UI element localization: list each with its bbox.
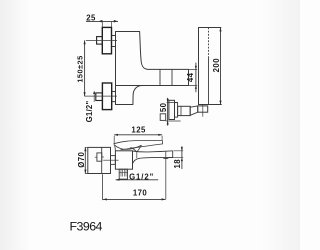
svg-text:G1/2": G1/2": [129, 173, 154, 182]
svg-text:200: 200: [212, 58, 221, 73]
svg-text:50: 50: [159, 102, 168, 112]
svg-text:44: 44: [186, 72, 195, 82]
svg-text:125: 125: [131, 126, 146, 135]
svg-text:25: 25: [86, 13, 96, 22]
svg-text:G1/2": G1/2": [85, 101, 94, 123]
svg-text:150±25: 150±25: [76, 55, 85, 82]
svg-text:170: 170: [133, 188, 148, 197]
svg-text:F3964: F3964: [70, 220, 103, 234]
svg-text:18: 18: [173, 159, 182, 169]
svg-text:Ø70: Ø70: [77, 151, 86, 167]
